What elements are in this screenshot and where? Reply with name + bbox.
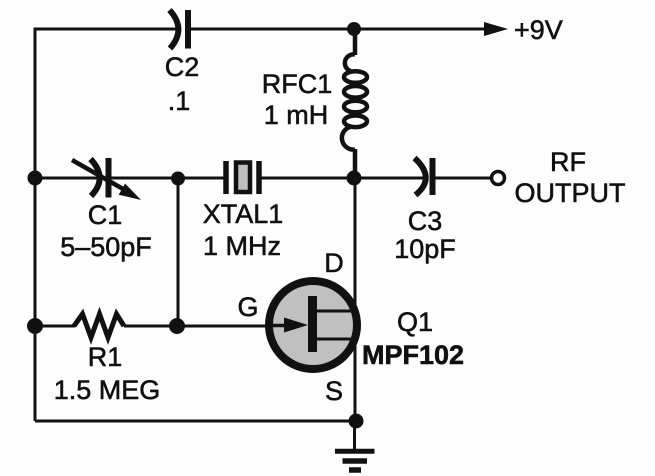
wire ground node to ground symbol (353, 421, 356, 450)
wire drain node to C3 (354, 177, 425, 180)
svg-text:RFC1: RFC1 (262, 69, 333, 99)
svg-text:1 mH: 1 mH (264, 100, 329, 130)
node A junction C1/XTAL1 (171, 172, 185, 186)
svg-text:XTAL1: XTAL1 (203, 199, 284, 229)
RF output terminal (492, 172, 505, 185)
svg-text:C2: C2 (165, 52, 200, 82)
wire Q1 source down to ground node (354, 339, 357, 421)
node junction top supply (347, 22, 361, 36)
wire rail to C1 (35, 177, 99, 180)
svg-text:G: G (237, 292, 258, 322)
wire bottom return rail (35, 420, 354, 423)
wire C1 to node A (111, 177, 179, 180)
wire rail to R1 (35, 325, 75, 328)
capacitor C2 (170, 10, 189, 49)
svg-text:.1: .1 (168, 86, 191, 116)
wire XTAL1 to drain node (260, 177, 354, 180)
svg-text:Q1: Q1 (397, 307, 433, 337)
svg-text:10pF: 10pF (394, 234, 456, 264)
wire node A down to gate node (177, 178, 180, 326)
wire R1 to gate node (124, 325, 178, 328)
node junction drain (347, 171, 362, 186)
svg-text:C3: C3 (408, 206, 443, 236)
node junction rail-R1 (27, 318, 43, 334)
wire left rail (34, 29, 37, 421)
svg-text:OUTPUT: OUTPUT (515, 178, 626, 208)
power +9V arrow (484, 22, 508, 36)
node junction gate (169, 318, 185, 334)
capacitor C3 (415, 158, 433, 195)
transistor Q1 drain lead (315, 310, 356, 313)
inductor RFC1 (342, 29, 367, 178)
transistor Q1 body (269, 281, 357, 369)
wire +9V arrow line (354, 28, 490, 31)
crystal XTAL1 (226, 161, 259, 194)
transistor Q1 gate arrow (284, 318, 308, 333)
svg-text:R1: R1 (88, 342, 123, 372)
wire C2 to supply arrow node (189, 28, 354, 31)
wire C3 to RF output terminal (435, 177, 491, 180)
svg-text:RF: RF (550, 147, 586, 177)
svg-text:5–50pF: 5–50pF (60, 232, 152, 262)
wire top supply from rail to C2 (34, 28, 179, 31)
svg-text:+9V: +9V (514, 15, 563, 45)
ground (335, 451, 375, 470)
transistor Q1 source lead (315, 338, 356, 341)
svg-text:C1: C1 (88, 200, 123, 230)
resistor R1 (74, 314, 124, 338)
variable capacitor C1 (72, 158, 124, 198)
wire drain node down to Q1 drain (354, 178, 357, 311)
wire gate node to Q1 gate (177, 325, 282, 328)
svg-text:MPF102: MPF102 (362, 340, 464, 370)
wire node A to XTAL1 (178, 177, 224, 180)
svg-text:D: D (324, 248, 344, 278)
transistor Q1 gate lead inside body (266, 324, 292, 328)
svg-text:1 MHz: 1 MHz (203, 231, 281, 261)
svg-text:1.5 MEG: 1.5 MEG (54, 375, 161, 405)
variable capacitor C1 adjustment arrowhead (119, 184, 141, 201)
transistor Q1 channel bar (308, 296, 317, 352)
node junction source-ground (349, 414, 364, 429)
svg-text:S: S (325, 376, 343, 406)
node junction rail-C1 (28, 171, 43, 186)
